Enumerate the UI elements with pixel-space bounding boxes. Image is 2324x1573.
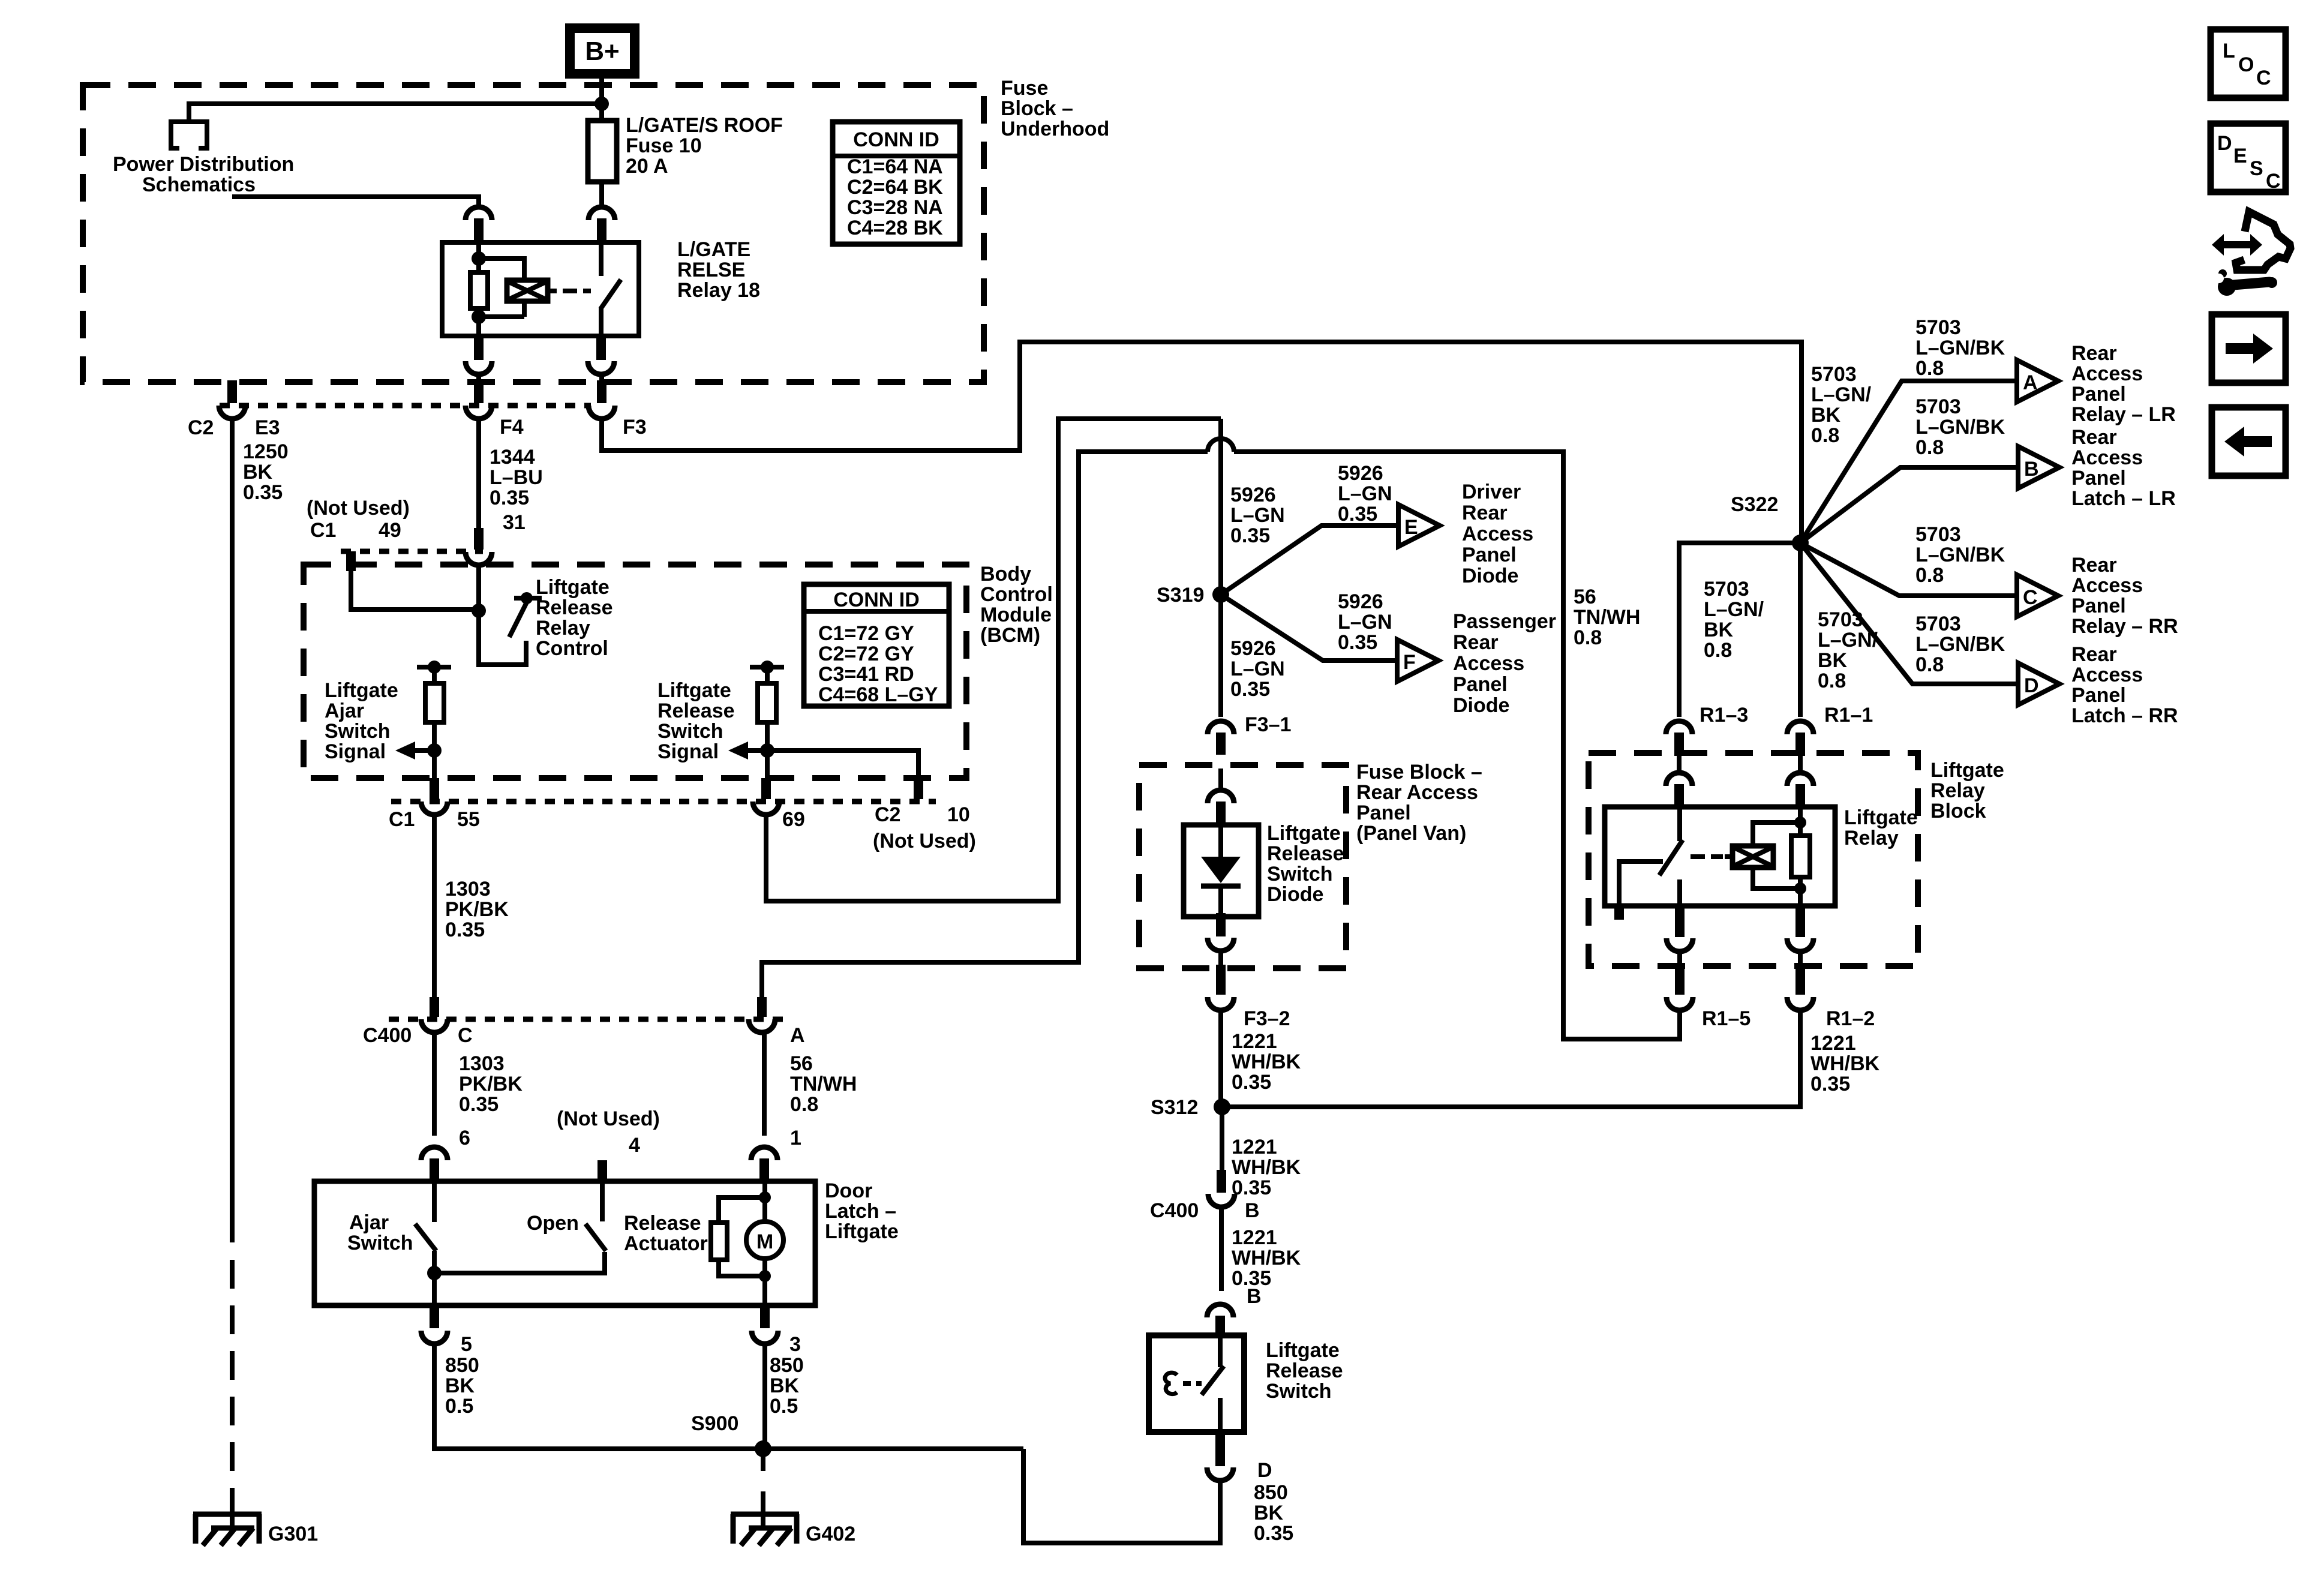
svg-text:C2=64 BK: C2=64 BK — [847, 176, 943, 199]
svg-text:L–GN/BK: L–GN/BK — [1915, 544, 2005, 566]
label wire 1250 BK 0.35 — [243, 440, 289, 504]
label 1303 PK/BK 0.35 upper — [445, 878, 509, 941]
svg-text:1303: 1303 — [459, 1052, 505, 1075]
svg-text:0.35: 0.35 — [1230, 678, 1270, 701]
connector row dotted line — [220, 403, 591, 409]
connector release switch pin D — [1207, 1432, 1233, 1481]
label C400 B — [1150, 1199, 1260, 1222]
label R1-2 — [1826, 1007, 1875, 1030]
svg-text:Latch –: Latch – — [825, 1200, 896, 1223]
relay 18 coil winding loop — [479, 259, 548, 317]
label 5926 L-GN 0.35 E — [1338, 462, 1392, 526]
svg-text:B: B — [2024, 458, 2039, 481]
svg-text:0.35: 0.35 — [243, 481, 283, 504]
svg-text:CONN ID: CONN ID — [833, 589, 920, 611]
svg-text:Liftgate: Liftgate — [1266, 1339, 1340, 1362]
svg-text:Rear: Rear — [1462, 502, 1508, 524]
svg-text:Rear: Rear — [2071, 643, 2117, 666]
label S900 — [691, 1412, 738, 1435]
svg-text:20 A: 20 A — [626, 155, 668, 178]
svg-text:Driver: Driver — [1462, 481, 1521, 503]
svg-text:Panel: Panel — [2071, 684, 2126, 707]
svg-text:F4: F4 — [500, 416, 524, 439]
svg-text:WH/BK: WH/BK — [1810, 1052, 1880, 1075]
svg-text:TN/WH: TN/WH — [790, 1073, 857, 1095]
power symbol B+ — [570, 28, 635, 74]
label 1 — [790, 1127, 801, 1149]
relay 18 box — [442, 242, 639, 336]
svg-text:Control: Control — [980, 583, 1053, 606]
label Rear Access Panel Relay LR — [2071, 342, 2176, 426]
wire R1-2 to S312 — [1222, 1010, 1800, 1107]
svg-text:1221: 1221 — [1232, 1030, 1277, 1053]
label 3 — [789, 1333, 801, 1356]
label 5703 L-GN/BK 0.8 A — [1915, 316, 2005, 380]
connector door latch pin 6 — [421, 1147, 448, 1181]
svg-text:0.35: 0.35 — [1254, 1522, 1293, 1545]
svg-text:5926: 5926 — [1338, 590, 1383, 613]
fuse block rear access panel dashed box — [1139, 765, 1346, 968]
branch to diode F — [1221, 595, 1397, 661]
connector R1-5 box exit — [1667, 904, 1693, 951]
svg-text:L–GN/BK: L–GN/BK — [1915, 416, 2005, 439]
label Door Latch Liftgate — [825, 1179, 899, 1243]
svg-text:5703: 5703 — [1915, 613, 1961, 635]
svg-text:L–GN/: L–GN/ — [1818, 629, 1878, 652]
svg-text:G402: G402 — [806, 1523, 855, 1545]
svg-text:C1: C1 — [389, 808, 415, 831]
label Power Distribution Schematics — [113, 153, 294, 196]
svg-text:Fuse: Fuse — [1001, 77, 1048, 100]
svg-text:Release: Release — [624, 1212, 701, 1235]
svg-text:E: E — [2233, 145, 2247, 167]
svg-text:R1–5: R1–5 — [1702, 1007, 1750, 1030]
label 5703 L-GN/BK 0.8 B — [1915, 395, 2005, 459]
relay 18 coil pin exit — [466, 334, 492, 374]
label F3-2 — [1244, 1007, 1290, 1030]
svg-text:G301: G301 — [268, 1523, 318, 1545]
label Fuse Block Rear Access Panel — [1356, 761, 1482, 845]
label 850 BK 0.5 right — [770, 1354, 804, 1418]
svg-text:S312: S312 — [1151, 1096, 1198, 1119]
svg-text:Relay: Relay — [1844, 827, 1899, 849]
svg-text:Liftgate: Liftgate — [1267, 822, 1341, 845]
connector F4 — [466, 380, 492, 419]
svg-text:D: D — [1257, 1459, 1272, 1482]
svg-text:Power Distribution: Power Distribution — [113, 153, 294, 176]
svg-text:B+: B+ — [585, 37, 619, 66]
svg-text:A: A — [790, 1024, 805, 1047]
relay 18 switch — [600, 242, 621, 336]
svg-text:Diode: Diode — [1267, 883, 1323, 906]
wire E3 1250 BK to G301 — [230, 419, 235, 1475]
release switch symbol — [1165, 1335, 1224, 1432]
svg-text:0.8: 0.8 — [1915, 653, 1944, 676]
svg-text:Relay – LR: Relay – LR — [2071, 403, 2176, 426]
label 1221 WH/BK 0.35 at R1-2 — [1810, 1032, 1880, 1095]
label 5926 L-GN 0.35 above S319 — [1230, 484, 1285, 547]
svg-text:Latch – RR: Latch – RR — [2071, 704, 2178, 727]
wire switch pin to F3 connector — [599, 374, 604, 382]
connector C400-B — [1208, 1170, 1235, 1207]
svg-text:BK: BK — [770, 1374, 800, 1397]
svg-text:BK: BK — [243, 461, 273, 484]
svg-text:0.8: 0.8 — [1818, 670, 1846, 692]
wire junction to power distribution bracket — [189, 104, 602, 122]
label Rear Access Panel Latch RR — [2071, 643, 2178, 727]
wire pin5 to S900 — [434, 1344, 1023, 1449]
label 31 — [503, 511, 526, 534]
svg-text:B: B — [1245, 1199, 1260, 1222]
svg-text:56: 56 — [790, 1052, 813, 1075]
connector R1-3 outer — [1666, 721, 1692, 756]
wire diode to F3-2 — [1218, 951, 1223, 966]
svg-text:BK: BK — [1254, 1502, 1284, 1524]
label R1-5 — [1702, 1007, 1750, 1030]
wire release signal to S319 column — [766, 419, 1221, 901]
triangle connector D — [2018, 663, 2059, 705]
node junction at B+ feed — [594, 97, 609, 111]
open switch — [434, 1181, 606, 1273]
connector R1-2 box exit — [1787, 904, 1813, 951]
svg-text:Access: Access — [2071, 574, 2143, 597]
triangle connector C — [2017, 575, 2058, 617]
wire C400-C to door latch — [432, 1032, 437, 1136]
ground G301 — [193, 1488, 262, 1545]
label fuse — [626, 114, 783, 178]
label R1-1 — [1824, 704, 1873, 727]
label Ajar Switch — [347, 1211, 413, 1254]
icon LOC box — [2211, 29, 2286, 98]
svg-text:CONN ID: CONN ID — [853, 128, 939, 151]
svg-text:M: M — [756, 1230, 773, 1253]
wire R1-5 to block edge — [1677, 951, 1682, 965]
svg-text:R1–1: R1–1 — [1824, 704, 1873, 727]
svg-text:F3–1: F3–1 — [1245, 713, 1292, 736]
svg-text:850: 850 — [770, 1354, 804, 1377]
connector C400-A — [749, 997, 775, 1032]
svg-text:Panel: Panel — [1462, 544, 1517, 566]
svg-text:TN/WH: TN/WH — [1574, 606, 1640, 629]
label C2 — [188, 416, 214, 439]
liftgate release switch diode box — [1184, 825, 1259, 917]
BCM release signal arrow — [728, 742, 767, 760]
svg-text:Passenger: Passenger — [1453, 610, 1556, 633]
svg-text:Module: Module — [980, 604, 1052, 626]
label F4 — [500, 416, 524, 439]
svg-text:Rear: Rear — [2071, 426, 2117, 449]
svg-text:BK: BK — [445, 1374, 475, 1397]
svg-text:Actuator: Actuator — [624, 1232, 708, 1255]
wire above S322 label 5703 — [1811, 363, 1872, 447]
svg-text:Liftgate: Liftgate — [536, 576, 609, 599]
svg-text:S: S — [2250, 157, 2263, 180]
svg-text:RELSE: RELSE — [677, 259, 745, 281]
svg-text:0.35: 0.35 — [1232, 1071, 1271, 1094]
svg-text:Diode: Diode — [1453, 694, 1509, 717]
svg-text:Underhood: Underhood — [1001, 118, 1109, 140]
branch S322 to D — [1800, 543, 2018, 684]
svg-text:5: 5 — [461, 1333, 472, 1356]
wire F4 1344 L-BU — [476, 419, 481, 529]
svg-text:56: 56 — [1574, 586, 1596, 608]
svg-text:R1–2: R1–2 — [1826, 1007, 1875, 1030]
relay 18 coil resistor — [470, 242, 488, 336]
label F3 — [623, 416, 647, 439]
svg-text:Rear Access: Rear Access — [1356, 781, 1478, 804]
svg-text:850: 850 — [445, 1354, 479, 1377]
label B pin — [1247, 1285, 1262, 1308]
svg-text:Switch: Switch — [1267, 863, 1333, 885]
label 5926 L-GN 0.35 F — [1338, 590, 1392, 654]
svg-text:L–GN/BK: L–GN/BK — [1915, 633, 2005, 656]
svg-text:S900: S900 — [691, 1412, 738, 1435]
wire R1-3 into block — [1677, 756, 1682, 773]
svg-text:C: C — [2266, 170, 2281, 193]
svg-text:Panel: Panel — [1356, 801, 1411, 824]
svg-text:5926: 5926 — [1230, 484, 1276, 506]
svg-text:0.8: 0.8 — [1915, 564, 1944, 587]
label S319 — [1157, 584, 1204, 607]
node ajar signal junction — [427, 743, 442, 758]
svg-text:1221: 1221 — [1232, 1136, 1277, 1158]
svg-text:L–GN/: L–GN/ — [1811, 383, 1872, 406]
svg-text:69: 69 — [782, 808, 805, 831]
svg-text:S319: S319 — [1157, 584, 1204, 607]
label 5703 L-GN/BK 0.8 D — [1915, 613, 2005, 676]
label 5703 L-GN/BK 0.8 at R1-1 — [1818, 608, 1878, 692]
svg-text:C2=72 GY: C2=72 GY — [818, 643, 914, 665]
svg-text:Liftgate: Liftgate — [1844, 806, 1918, 829]
wire B+ down to junction — [599, 74, 604, 121]
svg-text:0.8: 0.8 — [1915, 357, 1944, 380]
label 1221 WH/BK 0.35 below S312 — [1232, 1136, 1301, 1199]
svg-text:Liftgate: Liftgate — [325, 679, 398, 702]
fuse F10 L/GATE/S ROOF — [588, 121, 617, 182]
label D — [1257, 1459, 1272, 1482]
door latch liftgate box — [314, 1181, 815, 1305]
svg-text:Fuse Block –: Fuse Block – — [1356, 761, 1482, 784]
svg-text:Diode: Diode — [1462, 565, 1518, 587]
svg-text:L–GN: L–GN — [1338, 482, 1392, 505]
svg-text:D: D — [2217, 132, 2232, 155]
svg-text:10: 10 — [947, 803, 970, 826]
diode symbol — [1201, 827, 1241, 915]
label 850 BK 0.5 left — [445, 1354, 479, 1418]
connector row C1-55/69 dotted — [391, 799, 936, 804]
svg-text:Schematics: Schematics — [142, 173, 256, 196]
svg-text:Liftgate: Liftgate — [657, 679, 731, 702]
label C1 55 — [389, 808, 480, 831]
svg-text:Body: Body — [980, 563, 1031, 586]
svg-text:BK: BK — [1811, 404, 1841, 427]
svg-text:0.35: 0.35 — [445, 918, 485, 941]
label (Not Used) 4 — [557, 1107, 660, 1157]
label S312 — [1151, 1096, 1198, 1119]
svg-text:Block –: Block – — [1001, 97, 1073, 120]
label 1221 WH/BK 0.35 at B — [1232, 1226, 1301, 1290]
wire release junction to pin C2-10 — [767, 751, 918, 778]
svg-text:1221: 1221 — [1232, 1226, 1277, 1249]
svg-text:WH/BK: WH/BK — [1232, 1050, 1301, 1073]
svg-text:E: E — [1404, 516, 1418, 539]
pin 49 not used stub — [346, 551, 356, 571]
svg-text:0.8: 0.8 — [1915, 436, 1944, 459]
node ajar-open junction — [427, 1266, 442, 1280]
svg-text:S322: S322 — [1731, 493, 1778, 516]
liftgate relay coil resistor — [1791, 807, 1810, 906]
svg-text:55: 55 — [457, 808, 480, 831]
table CONN ID BCM — [804, 584, 949, 706]
svg-text:Release: Release — [657, 700, 735, 722]
triangle connector E — [1398, 505, 1440, 547]
label wire 1344 L-BU 0.35 — [490, 446, 543, 509]
svg-text:C: C — [458, 1024, 473, 1047]
svg-text:5703: 5703 — [1811, 363, 1857, 386]
svg-text:Block: Block — [1930, 800, 1986, 822]
svg-text:0.8: 0.8 — [1811, 424, 1839, 447]
label Driver Rear Access Panel Diode — [1462, 481, 1533, 587]
connector C1-55 — [421, 778, 448, 815]
svg-text:L/GATE: L/GATE — [677, 238, 750, 261]
svg-text:Liftgate: Liftgate — [1930, 759, 2004, 782]
connector pin 5 — [421, 1305, 448, 1344]
branch S322 to A — [1800, 381, 2017, 543]
svg-text:3: 3 — [789, 1333, 801, 1356]
connector R1-1 outer — [1787, 721, 1813, 756]
svg-text:(Not Used): (Not Used) — [873, 830, 976, 852]
svg-text:L: L — [2223, 40, 2235, 62]
svg-text:0.35: 0.35 — [1810, 1073, 1850, 1095]
connector F3-2 — [1208, 965, 1234, 1010]
connector C400-C — [421, 997, 448, 1032]
label Body Control Module BCM — [980, 563, 1053, 647]
svg-text:Relay: Relay — [536, 617, 590, 640]
svg-text:0.35: 0.35 — [490, 487, 529, 509]
label Liftgate Relay — [1844, 806, 1918, 849]
svg-text:850: 850 — [1254, 1481, 1288, 1504]
svg-text:C400: C400 — [1150, 1199, 1199, 1222]
icon car with double arrow and wrench — [2212, 212, 2290, 296]
svg-text:Access: Access — [1453, 652, 1524, 675]
connector R1-2 — [1787, 965, 1813, 1010]
connector R1-3 inner — [1666, 773, 1692, 809]
wire pin 31 into BCM — [476, 566, 481, 611]
label Passenger Rear Access Panel Diode — [1453, 610, 1556, 717]
node S322 — [1792, 535, 1809, 551]
svg-text:Rear: Rear — [2071, 554, 2117, 577]
svg-text:Control: Control — [536, 637, 608, 660]
wire S322 to R1-3 top — [1679, 543, 1800, 717]
label Fuse Block Underhood — [1001, 77, 1109, 140]
svg-text:Relay: Relay — [1930, 779, 1985, 802]
svg-text:L/GATE/S ROOF: L/GATE/S ROOF — [626, 114, 783, 137]
svg-text:5703: 5703 — [1915, 523, 1961, 546]
svg-text:PK/BK: PK/BK — [459, 1073, 523, 1095]
svg-text:C3=41 RD: C3=41 RD — [818, 663, 914, 686]
svg-text:Access: Access — [2071, 362, 2143, 385]
svg-text:5926: 5926 — [1230, 637, 1276, 660]
wire D to S900 — [1023, 1449, 1220, 1543]
svg-text:0.5: 0.5 — [445, 1395, 473, 1418]
svg-text:5703: 5703 — [1915, 316, 1961, 339]
BCM relay control switch — [479, 592, 542, 665]
fuse block underhood dashed box — [83, 85, 984, 382]
svg-text:L–GN: L–GN — [1230, 658, 1285, 680]
wire S312 down — [1220, 1107, 1224, 1171]
label 5926 L-GN 0.35 below S319 — [1230, 637, 1285, 701]
svg-text:1303: 1303 — [445, 878, 491, 900]
svg-text:6: 6 — [459, 1127, 470, 1149]
connector pin 3 — [752, 1305, 778, 1344]
svg-text:49: 49 — [379, 519, 401, 542]
svg-text:1221: 1221 — [1810, 1032, 1856, 1055]
svg-text:Fuse 10: Fuse 10 — [626, 134, 702, 157]
wire into S319 — [1218, 419, 1223, 595]
svg-text:WH/BK: WH/BK — [1232, 1247, 1301, 1269]
label C400 — [363, 1024, 412, 1047]
label 56 TN/WH 0.8 lower — [790, 1052, 857, 1116]
svg-text:BK: BK — [1818, 649, 1848, 672]
svg-text:5703: 5703 — [1915, 395, 1961, 418]
label 56 TN/WH 0.8 mid — [1574, 586, 1640, 649]
label C — [458, 1024, 473, 1047]
svg-text:Relay 18: Relay 18 — [677, 279, 760, 302]
connector pin 31 — [466, 528, 492, 565]
label Liftgate Release Relay Control — [536, 576, 613, 660]
svg-text:BK: BK — [1704, 619, 1734, 641]
wire S900 to G402 — [761, 1449, 765, 1528]
svg-text:Panel: Panel — [2071, 467, 2126, 490]
svg-text:(Not Used): (Not Used) — [557, 1107, 660, 1130]
svg-text:F: F — [1403, 651, 1416, 674]
svg-text:Ajar: Ajar — [325, 700, 364, 722]
connector F3-1 — [1208, 721, 1234, 755]
icon forward arrow box — [2212, 314, 2286, 383]
relay 18 switch pin exit — [588, 334, 614, 374]
svg-text:C: C — [2023, 586, 2038, 609]
svg-text:0.8: 0.8 — [1574, 626, 1602, 649]
wire R1-2 to block edge — [1798, 951, 1803, 965]
connector cap relay pin 30 — [588, 207, 615, 242]
wire S319 down to F3-1 — [1218, 595, 1223, 717]
wire C400-A to door latch — [762, 1032, 767, 1136]
label Liftgate Relay Block — [1930, 759, 2004, 822]
label 1221 WH/BK 0.35 above S312 — [1232, 1030, 1301, 1094]
svg-text:Access: Access — [2071, 664, 2143, 686]
label 850 BK 0.35 — [1254, 1481, 1293, 1545]
liftgate relay coil winding — [1725, 816, 1806, 894]
ajar switch — [415, 1181, 436, 1305]
branch S322 to C — [1800, 543, 2017, 596]
triangle connector A — [2017, 360, 2058, 402]
connector C2-E3 — [219, 380, 245, 419]
svg-text:Switch: Switch — [347, 1232, 413, 1254]
wire 56 TN/WH from R1-5 to C400-A — [762, 439, 1680, 1039]
label G402 — [806, 1523, 855, 1545]
svg-text:Rear: Rear — [2071, 342, 2117, 365]
svg-text:Access: Access — [2071, 446, 2143, 469]
svg-text:Switch: Switch — [1266, 1380, 1332, 1403]
branch to diode E — [1221, 526, 1398, 595]
svg-text:31: 31 — [503, 511, 526, 534]
wire C400-B to release switch — [1219, 1207, 1224, 1291]
svg-text:F3–2: F3–2 — [1244, 1007, 1290, 1030]
label A — [790, 1024, 805, 1047]
connector diode box entry — [1208, 790, 1234, 827]
label Liftgate Release Switch Diode — [1267, 822, 1344, 906]
label 69 — [782, 808, 805, 831]
